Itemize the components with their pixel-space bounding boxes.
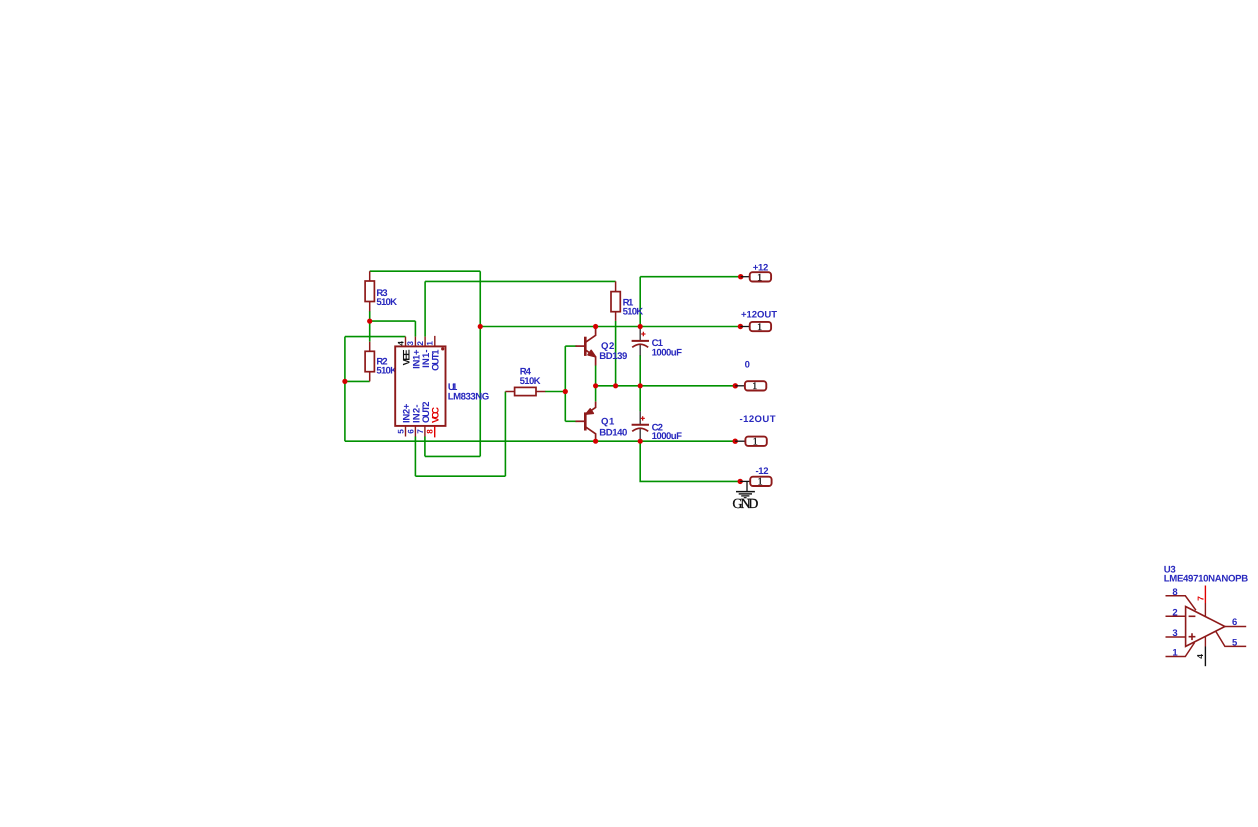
resistor R1 [611, 281, 643, 321]
svg-text:VCC: VCC [431, 407, 442, 423]
wire C2 top [639, 386, 641, 412]
U3 pin 1 line [1166, 643, 1195, 657]
wire R1 bottom [615, 321, 617, 386]
resistor R4 [505, 367, 545, 396]
svg-text:5: 5 [1232, 637, 1238, 648]
capacitor C1 [632, 327, 683, 359]
svg-text:1000uF: 1000uF [652, 431, 683, 442]
U1 pin number 5 [396, 429, 405, 434]
junction node Q1 collector [593, 439, 598, 444]
junction node C2 bottom [638, 439, 643, 444]
connector -12OUT [733, 414, 776, 448]
U1 pin stubs 4,3,2,1 top and 5,6,7 bottom [406, 336, 435, 437]
svg-text:1000uF: 1000uF [652, 348, 683, 359]
svg-text:Q1: Q1 [601, 417, 615, 428]
U3 pin 8 line [1166, 596, 1196, 610]
wire left vertical VEE to -12OUT rail [344, 337, 346, 442]
wire Q1 emitter [595, 386, 597, 402]
svg-text:1: 1 [757, 272, 762, 283]
junction node R3/R2/pin3 [367, 319, 372, 324]
wire C1 bottom [639, 355, 641, 386]
U3 pin number 2 [1172, 607, 1177, 618]
wire OUT2 horizontal to riser [425, 455, 480, 457]
wire OUT2 feedback riser [479, 271, 481, 456]
svg-text:510K: 510K [520, 376, 541, 387]
U3 pin number 3 [1172, 628, 1177, 639]
wire pin6 drop [414, 436, 416, 476]
U1 pin name VCC [431, 407, 442, 423]
svg-text:BD139: BD139 [599, 351, 627, 362]
wire VEE horizontal [345, 336, 406, 338]
junction node C1 bottom / C2 top [638, 383, 643, 388]
wire R3 bottom to R2 top [369, 311, 371, 342]
svg-text:GND: GND [732, 497, 758, 512]
resistor R3 [365, 271, 397, 311]
U3 pin 5 line [1216, 631, 1246, 646]
svg-text:2: 2 [1172, 607, 1177, 618]
U1 pin name IN1+ [411, 349, 422, 369]
svg-text:8: 8 [426, 429, 435, 434]
U1 pin number 7 [416, 429, 425, 434]
wire -12OUT rail [345, 440, 735, 442]
svg-text:1: 1 [752, 381, 757, 392]
U1 pin name IN1- [421, 349, 432, 368]
svg-text:LME49710NANOPB: LME49710NANOPB [1164, 573, 1249, 584]
junction node R2 bottom / left vertical [342, 379, 347, 384]
U3 pin number 4 [1195, 654, 1205, 659]
junction node emitters / 0V rail [593, 383, 598, 388]
wire IN1- to R1 top [425, 280, 615, 282]
svg-text:3: 3 [406, 341, 415, 346]
U1 pin stub 8 VCC [434, 426, 436, 438]
U1 pin number 4 [396, 341, 405, 346]
junction node Q2 collector [593, 324, 598, 329]
svg-text:8: 8 [1172, 587, 1177, 598]
U1 pin name VEE [401, 349, 412, 365]
connector +12OUT [738, 309, 777, 333]
connector 0 [733, 359, 767, 392]
resistor R2 [365, 342, 397, 382]
svg-text:510K: 510K [623, 307, 644, 318]
wire pin3 riser [414, 321, 416, 337]
svg-text:4: 4 [396, 341, 405, 346]
U1 pin number 8 [426, 429, 435, 434]
capacitor C2 [632, 411, 683, 442]
svg-text:OUT1: OUT1 [431, 349, 442, 371]
svg-text:1: 1 [753, 437, 758, 448]
junction node OUT2 riser / +12OUT rail [478, 324, 483, 329]
U1 pin number 2 [416, 341, 425, 346]
U3 pin number 1 [1172, 648, 1178, 659]
svg-text:6: 6 [1232, 617, 1237, 628]
junction node R4 / base bus [563, 389, 568, 394]
svg-text:7: 7 [416, 429, 425, 434]
wire R4 right to base bus [545, 391, 565, 393]
wire top feedback horizontal [370, 270, 481, 272]
U3 pin 7 power line [1204, 586, 1206, 617]
svg-text:1: 1 [1172, 648, 1178, 659]
svg-text:+12OUT: +12OUT [741, 309, 777, 320]
U3 pin 3 line [1166, 636, 1186, 638]
svg-text:LM833NG: LM833NG [448, 391, 490, 402]
transistor Q2 BD139 [576, 327, 628, 366]
U3 pin 2 line [1166, 615, 1186, 617]
U3 pin number 7 [1196, 596, 1206, 601]
wire pin7 drop [424, 436, 426, 456]
U1 pin name IN2- [411, 405, 422, 424]
junction node C1 top / +12 drop [638, 324, 643, 329]
wire R2 bottom link [345, 380, 370, 382]
svg-text:1: 1 [758, 477, 763, 488]
U1 pin number 1 [426, 341, 435, 346]
wire Q2 emitter [595, 365, 597, 385]
wire +12 rail [640, 276, 741, 278]
svg-text:+12: +12 [753, 263, 769, 274]
U1 pin name OUT1 [431, 349, 442, 371]
svg-text:1: 1 [426, 341, 435, 346]
wire -12 link from C2 node [640, 441, 740, 481]
U3 triangle body [1186, 607, 1225, 647]
svg-text:510K: 510K [376, 297, 397, 308]
svg-text:5: 5 [396, 429, 405, 434]
U3 pin 4 line [1204, 637, 1206, 667]
svg-text:BD140: BD140 [599, 427, 627, 438]
wire 0V rail [596, 385, 736, 387]
wire +12 drop to C1 top node [639, 277, 641, 327]
U1 pin name IN2+ [401, 403, 412, 423]
wire Q1 base stub [565, 420, 576, 422]
U3 inverting input marker [1189, 615, 1196, 617]
wire R4 left riser [504, 392, 506, 477]
U3 pin number 5 [1232, 637, 1238, 648]
U1 reference labels [448, 382, 490, 402]
wire +12OUT rail [480, 326, 740, 328]
U3 pin number 6 [1232, 617, 1237, 628]
svg-text:7: 7 [1196, 596, 1206, 601]
svg-text:-12OUT: -12OUT [740, 414, 776, 425]
wire Q2 base stub [565, 345, 576, 347]
svg-text:2: 2 [416, 341, 425, 346]
junction node R1 bottom / 0V rail [613, 383, 618, 388]
svg-text:1: 1 [757, 322, 762, 333]
U1 pin number 6 [406, 429, 415, 434]
wire base bus vertical [564, 346, 566, 421]
connector -12 [738, 466, 772, 488]
U3 pin number 8 [1172, 587, 1177, 598]
svg-text:4: 4 [1195, 654, 1205, 659]
svg-text:-12: -12 [756, 466, 769, 477]
connector +12 [738, 263, 771, 284]
svg-text:6: 6 [406, 429, 415, 434]
U3 pin 6 line [1225, 626, 1246, 628]
U1 pin name OUT2 [421, 402, 432, 424]
ground [732, 481, 758, 511]
wire IN1- riser [424, 281, 426, 336]
wire bottom return [415, 475, 505, 477]
op-amp U3 LME49710NANOPB [1164, 565, 1249, 585]
U3 non-inverting input marker [1189, 633, 1196, 640]
svg-text:0: 0 [745, 359, 750, 370]
transistor Q1 BD140 [576, 402, 628, 442]
wire node A horizontal R3/R2 to pin3 [370, 320, 416, 322]
op-amp U1 LM833NG body [395, 346, 445, 426]
svg-text:3: 3 [1172, 628, 1177, 639]
svg-text:510K: 510K [376, 366, 397, 377]
U1 pin number 3 [406, 341, 415, 346]
